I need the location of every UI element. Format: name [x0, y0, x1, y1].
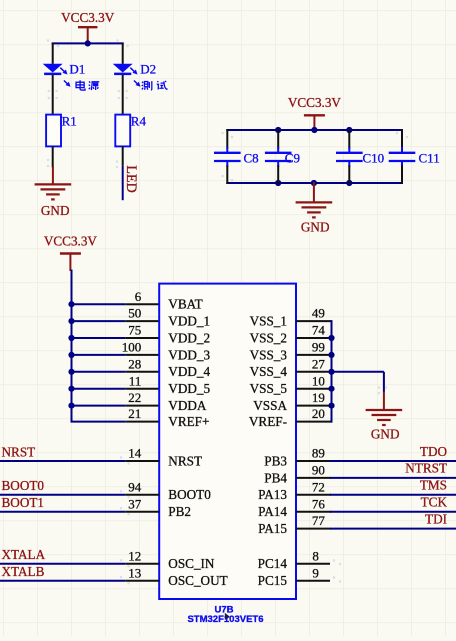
comment 测试 (D2) [142, 81, 168, 90]
svg-text:90: 90 [312, 463, 325, 478]
pin 90 [296, 463, 331, 478]
svg-text:19: 19 [312, 390, 325, 405]
pin name OSC_IN [168, 556, 215, 571]
svg-text:VDD_5: VDD_5 [168, 381, 210, 396]
svg-text:VDD_4: VDD_4 [168, 364, 210, 379]
label D1 [69, 62, 85, 77]
junction bottom rail GND [311, 180, 317, 186]
wire VDD row 21 [71, 421, 126, 423]
resistor R4 [115, 115, 130, 147]
net label NTRST [405, 461, 447, 476]
wire VDD row 100 [71, 354, 126, 356]
svg-text:NRST: NRST [168, 453, 202, 468]
svg-text:VSS_5: VSS_5 [250, 381, 288, 396]
svg-text:GND: GND [41, 203, 70, 218]
svg-text:PC14: PC14 [258, 556, 288, 571]
svg-text:VREF-: VREF- [249, 414, 287, 429]
pin 10 [296, 373, 332, 388]
svg-text:13: 13 [128, 565, 141, 580]
wire net TMS [330, 494, 456, 496]
pin 75 [125, 323, 159, 338]
svg-text:VSS_1: VSS_1 [250, 314, 287, 329]
junction top rail C9 [275, 127, 281, 133]
svg-text:VCC3.3V: VCC3.3V [288, 95, 342, 110]
svg-text:C8: C8 [244, 151, 259, 166]
junction bus row 28 [68, 369, 74, 375]
pin 21 [125, 406, 159, 421]
svg-text:11: 11 [129, 373, 142, 388]
junction bus row 11 [68, 386, 74, 392]
svg-text:VDD_2: VDD_2 [168, 330, 210, 345]
wire D2 anode [122, 43, 124, 64]
pin 14 [125, 446, 159, 461]
pin 99 [296, 340, 332, 355]
junction bottom rail C10 [346, 180, 352, 186]
junction VSS bus row 74 [328, 335, 334, 341]
pin name VDD_5 [168, 381, 210, 396]
label R4 [131, 114, 147, 129]
pin name VDDA [168, 398, 207, 413]
svg-text:28: 28 [128, 356, 141, 371]
wire VCC bus vertical [71, 270, 73, 423]
wire D1 cathode to R1 [52, 75, 54, 115]
svg-text:VDDA: VDDA [168, 398, 207, 413]
svg-text:PB3: PB3 [264, 453, 287, 468]
svg-text:TDI: TDI [425, 511, 447, 526]
pin name NRST [168, 453, 202, 468]
svg-text:VDD_1: VDD_1 [168, 314, 210, 329]
wire VDD row 75 [71, 337, 126, 339]
junction VSS bus row 10 [328, 386, 334, 392]
pin name VDD_1 [168, 314, 210, 329]
pin name VDD_2 [168, 330, 210, 345]
wire net NRST [0, 460, 125, 462]
pin name PB4 [264, 470, 287, 485]
svg-text:NTRST: NTRST [405, 461, 447, 476]
wire net TDI [330, 528, 456, 530]
svg-text:PB4: PB4 [264, 470, 287, 485]
svg-text:BOOT1: BOOT1 [2, 495, 45, 510]
svg-text:TCK: TCK [421, 495, 448, 510]
pin name VDD_4 [168, 364, 210, 379]
resistor R1 [46, 115, 61, 147]
LED D1 [43, 64, 71, 87]
svg-text:C11: C11 [419, 151, 440, 166]
svg-text:21: 21 [128, 406, 141, 421]
pin name VDD_3 [168, 347, 210, 362]
net label TMS [420, 478, 447, 493]
net label LED [123, 165, 139, 193]
net label XTALB [2, 564, 45, 579]
svg-text:75: 75 [128, 323, 141, 338]
junction bus row 6 [68, 301, 74, 307]
svg-text:76: 76 [312, 496, 326, 511]
svg-text:XTALB: XTALB [2, 564, 45, 579]
svg-text:PA13: PA13 [258, 487, 287, 502]
svg-text:100: 100 [122, 340, 142, 355]
svg-text:VDD_3: VDD_3 [168, 347, 210, 362]
svg-text:R1: R1 [62, 114, 77, 129]
wire D2 cathode to R4 [122, 75, 124, 115]
mouse cursor [225, 613, 230, 620]
power symbol VCC3.3V (LED circuit) [61, 10, 115, 43]
power symbol VCC3.3V (IC) [44, 234, 98, 271]
svg-text:27: 27 [312, 356, 326, 371]
ground GND (capacitors) [296, 182, 333, 235]
junction VCC rail [85, 40, 91, 46]
svg-text:37: 37 [128, 496, 142, 511]
svg-text:BOOT0: BOOT0 [2, 478, 45, 493]
pin 89 [296, 446, 331, 461]
svg-text:77: 77 [312, 513, 326, 528]
svg-text:VSS_2: VSS_2 [250, 330, 287, 345]
svg-text:VSSA: VSSA [253, 398, 287, 413]
pin 77 [296, 513, 331, 528]
svg-text:49: 49 [312, 306, 325, 321]
svg-text:PB2: PB2 [168, 504, 191, 519]
pin 13 [125, 565, 159, 580]
svg-text:14: 14 [128, 446, 142, 461]
pin 37 [125, 496, 159, 511]
pin 76 [296, 496, 331, 511]
wire cap top rail [226, 129, 403, 131]
svg-text:22: 22 [128, 390, 141, 405]
net label NRST [2, 444, 36, 459]
pin 50 [125, 306, 159, 321]
wire net XTALA [0, 563, 125, 565]
svg-text:XTALA: XTALA [2, 547, 46, 562]
label R1 [62, 114, 77, 129]
pin name VSS_4 [250, 364, 288, 379]
svg-text:PA15: PA15 [258, 521, 287, 536]
wire VDD row 11 [71, 388, 126, 390]
wire VDD row 22 [71, 405, 126, 407]
svg-text:BOOT0: BOOT0 [168, 487, 211, 502]
svg-text:10: 10 [312, 373, 325, 388]
junction bus row 100 [68, 352, 74, 358]
junction VSS bus row 19 [328, 403, 334, 409]
junction bus row 22 [68, 403, 74, 409]
pin 72 [296, 479, 331, 494]
pin name VREF- [249, 414, 287, 429]
svg-text:94: 94 [128, 479, 142, 494]
svg-text:20: 20 [312, 406, 325, 421]
comment 电源 (D1) [76, 80, 99, 90]
LED D2 [113, 64, 141, 87]
pin 22 [125, 390, 159, 405]
net label XTALA [2, 547, 46, 562]
wire rail D1-D2 [52, 42, 124, 44]
pin name PB3 [264, 453, 287, 468]
wire D1 anode [52, 43, 54, 64]
wire net TCK [330, 511, 456, 513]
wire net TDO [330, 460, 456, 462]
wire net BOOT0 [0, 494, 125, 496]
junction top rail VCC [311, 127, 317, 133]
op-amp IC U7B rectangle [159, 284, 296, 599]
pin 9 [296, 565, 330, 580]
wire VDD row 6 [71, 303, 126, 305]
net label TDI [425, 511, 447, 526]
label D2 [140, 62, 156, 77]
pin 49 [296, 306, 332, 321]
power symbol VCC3.3V (capacitors) [288, 95, 342, 130]
wire net LED [122, 165, 124, 200]
pin name PB2 [168, 504, 191, 519]
net label TCK [421, 495, 448, 510]
capacitor C9 [265, 129, 300, 184]
wire VSS bus vertical [331, 320, 333, 423]
svg-text:6: 6 [135, 289, 142, 304]
junction bus row 75 [68, 335, 74, 341]
net label BOOT1 [2, 495, 45, 510]
svg-text:74: 74 [312, 323, 326, 338]
svg-text:OSC_IN: OSC_IN [168, 556, 215, 571]
junction VSS bus row 27 [328, 369, 334, 375]
capacitor C10 [336, 129, 384, 184]
svg-text:LED: LED [123, 165, 139, 193]
wire net NTRST [330, 477, 456, 479]
pin name PA14 [258, 504, 287, 519]
svg-text:50: 50 [128, 306, 141, 321]
pin 11 [125, 373, 159, 388]
pin 27 [296, 356, 332, 371]
wire VDD row 50 [71, 320, 126, 322]
pin 74 [296, 323, 332, 338]
pin name VSS_5 [250, 381, 288, 396]
svg-text:72: 72 [312, 479, 325, 494]
svg-text:VCC3.3V: VCC3.3V [44, 234, 98, 249]
net label TDO [420, 444, 447, 459]
svg-text:C9: C9 [285, 151, 300, 166]
svg-text:D2: D2 [140, 62, 156, 77]
pin 100 [122, 340, 160, 355]
svg-text:VREF+: VREF+ [168, 414, 209, 429]
pin name PC14 [258, 556, 288, 571]
pin 19 [296, 390, 332, 405]
wire net BOOT1 [0, 511, 125, 513]
svg-text:TMS: TMS [420, 478, 447, 493]
svg-text:PC15: PC15 [258, 573, 288, 588]
svg-text:89: 89 [312, 446, 325, 461]
svg-text:GND: GND [301, 220, 330, 235]
pin name VSS_3 [250, 347, 288, 362]
wire cap bottom rail [226, 182, 403, 184]
pin name BOOT0 [168, 487, 211, 502]
svg-text:99: 99 [312, 340, 325, 355]
label U7B designator [214, 604, 233, 615]
pin name PA13 [258, 487, 287, 502]
pin 6 [125, 289, 159, 304]
pin 94 [125, 479, 159, 494]
wire VDD row 28 [71, 371, 126, 373]
svg-text:VCC3.3V: VCC3.3V [61, 10, 115, 25]
wire R4 pin down [122, 146, 124, 165]
svg-text:D1: D1 [69, 62, 85, 77]
svg-text:12: 12 [128, 548, 141, 563]
svg-text:VBAT: VBAT [168, 297, 202, 312]
svg-text:VSS_3: VSS_3 [250, 347, 288, 362]
svg-text:R4: R4 [131, 114, 147, 129]
junction bus row 50 [68, 318, 74, 324]
pin name OSC_OUT [168, 573, 227, 588]
svg-text:PA14: PA14 [258, 504, 287, 519]
capacitor C8 [214, 129, 259, 184]
wire end markers [47, 39, 408, 584]
pin 12 [125, 548, 159, 563]
wire VSS bus to GND [332, 372, 384, 393]
pin name VSS_2 [250, 330, 287, 345]
svg-text:VSS_4: VSS_4 [250, 364, 288, 379]
pin name PC15 [258, 573, 288, 588]
pin name VSSA [253, 398, 287, 413]
svg-text:TDO: TDO [420, 444, 447, 459]
pin name PA15 [258, 521, 287, 536]
wire R1 to GND [52, 146, 54, 167]
pin name VREF+ [168, 414, 209, 429]
svg-text:C10: C10 [363, 151, 385, 166]
junction top rail C10 [346, 127, 352, 133]
svg-text:OSC_OUT: OSC_OUT [168, 573, 227, 588]
svg-text:9: 9 [312, 565, 319, 580]
ground GND (IC) [366, 392, 403, 442]
pin 20 [296, 406, 332, 421]
label STM32F103VET6 comment [187, 614, 263, 625]
ground GND (LED circuit) [35, 167, 72, 219]
pin 8 [296, 548, 330, 563]
junction bottom rail C9 [275, 180, 281, 186]
net label BOOT0 [2, 478, 45, 493]
junction VSS bus row 99 [328, 352, 334, 358]
capacitor C11 [389, 129, 440, 184]
svg-text:NRST: NRST [2, 444, 36, 459]
pin name VBAT [168, 297, 202, 312]
pin 28 [125, 356, 159, 371]
wire net XTALB [0, 580, 125, 582]
svg-text:GND: GND [371, 427, 400, 442]
svg-text:8: 8 [312, 548, 319, 563]
pin name VSS_1 [250, 314, 287, 329]
